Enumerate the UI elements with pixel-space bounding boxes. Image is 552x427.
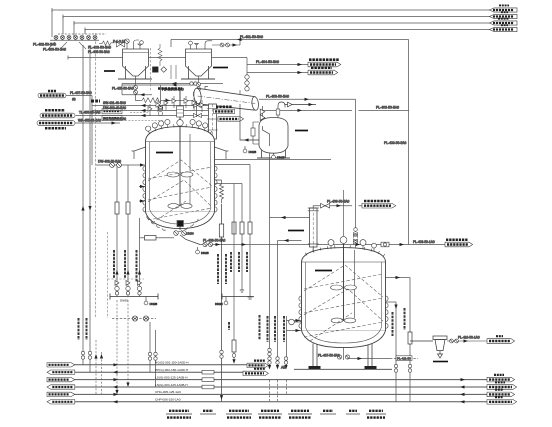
wire flex hose to tank V1 [99,40,125,46]
svg-text:PL-410-50-1A0: PL-410-50-1A0 [458,335,480,339]
wire dashed battery limit vertical [95,33,97,318]
reactor R2 jacket scallops left [299,296,302,328]
wire flex hose feed to condenser [140,98,193,103]
tank V3 level instrument [251,122,259,144]
reactor R2 left gauge [289,319,302,325]
flag pill to offgas tower (lower) [218,117,244,122]
inline rect on header drop [232,340,236,357]
reactor R2 vessel [302,248,386,348]
wire manifold drop 3 [73,23,75,37]
wire manifold drop 4 [84,30,86,35]
node flag top right 4 [490,25,518,31]
label DN50 at bottom valve [186,232,194,236]
wire to flag line B y72.5 [247,71,308,74]
node flag cooling supply WR [37,121,75,129]
svg-text:PL-407-50-5A0: PL-407-50-5A0 [70,91,92,95]
wire manifold header [50,39,99,41]
svg-text:PL-403-50-5A0: PL-403-50-5A0 [376,106,399,110]
jacket nozzle stubs R1 left [139,185,146,203]
ground text under R2 [281,365,286,369]
reactor R1 dome nozzles [148,124,212,134]
drop arrows into rows [220,365,288,400]
wire R1 branch y183.5 [215,183,243,185]
reactor R2 impellers [331,285,357,323]
heat exchanger E1 shell [193,88,259,111]
vertical labels R2 right columns [268,308,405,342]
wire manifold tails [48,42,86,49]
svg-text:PL-405-50-5A0: PL-405-50-5A0 [112,86,134,90]
wire condenser feed y217.5 [270,216,310,219]
node flag top right 2 [490,12,518,18]
wire drop x286 [286,316,288,395]
reactor R1 dip tube [189,134,191,207]
junction circles on drop lines [81,348,411,372]
valve pair after F1 [447,339,487,343]
wire scrubber riser right edge [408,40,410,245]
valve pair on SW at column [194,103,202,107]
label DW-402 on pump line [98,160,121,164]
discharge drain circle [196,247,209,255]
reactor R1 bottom valve square [177,221,183,231]
vertical labels mid columns [231,252,260,340]
reactor R1 bottom valve cluster [174,231,200,245]
flag pill A with title [308,60,341,67]
valve pair on DW2 at column [194,113,202,117]
wire condenser vent to offgas flag [313,204,362,208]
node flag row3 left [47,377,75,381]
rotameter FI-3 [248,222,252,234]
wire secondary overhead to riser x409 [263,109,409,112]
dashed utility risers to rows [117,300,128,392]
valve pair on recirc drop [158,105,162,116]
valve pair right of tank V2 [212,40,240,47]
dashed feed y120.5 [92,120,163,122]
label PL-407 bottom [318,353,340,357]
reactor R1 inner jacket wall [150,142,211,224]
wire R2 right jacket feed [386,276,411,402]
label PL-408 right [413,240,435,244]
row labels [155,361,189,402]
reactor R1 top instrument bubbles [146,119,208,131]
tank V3 vent candy cane [276,102,285,118]
svg-text:HP(G)-002-150-1A0D-H: HP(G)-002-150-1A0D-H [155,368,188,372]
svg-text:DN50: DN50 [186,232,194,236]
reactor R1 impellers [167,172,193,208]
label PL-401 on overhead line [237,35,263,41]
reactor R1 agitator shaft and motor [177,88,184,206]
wire utility row 3 [68,379,487,381]
svg-text:CHP-006-150-1A0: CHP-006-150-1A0 [155,398,181,402]
label PL-408 on discharge [203,239,226,243]
wire pump drop lines [150,322,156,387]
label PL-403-50-5A0 on E1 outlet [266,95,289,99]
wire DW pump line y165 [96,163,146,166]
wire R1 feed SW [92,101,209,107]
wire aux line y94.7 [122,84,152,97]
wire E1 outlet to R2 riser [259,98,356,232]
valve stack on R2 dome riser [354,228,358,250]
tank V1 top fittings [125,39,144,49]
equipment tag dash top left [104,70,115,72]
wire R1 feed DW2 [76,114,209,121]
reactor R2 dip tube [354,250,356,318]
wire left long vertical a [82,45,84,365]
condenser E2 column [308,208,319,256]
svg-text:PL-406-50-5A0: PL-406-50-5A0 [43,47,66,51]
strainer vertical on x221.5 [219,204,223,402]
reactor R2 bottom outlet [337,348,349,360]
legend item 6 [320,411,336,414]
node flag row5 left [47,392,75,396]
wire manifold drop 1 [51,10,53,37]
wire E1 left downcomer [196,101,198,117]
inline component on discharge near R2 [381,242,389,247]
reactor R1 bottom scallops [147,216,198,232]
svg-text:HG(G)-001-150-1A0D-H: HG(G)-001-150-1A0D-H [155,361,189,365]
wire R1 branch y164.5 [215,165,251,298]
node flag row6 right [487,397,517,404]
valve pair on discharge [203,242,213,246]
svg-text:PL-404-50-5A0: PL-404-50-5A0 [256,60,279,64]
vertical label left risers [79,318,87,340]
wire to flag line A y64.5 [247,60,308,66]
svg-text:PL-405-50-5A0: PL-405-50-5A0 [88,50,110,54]
utility header right under R1 [222,294,254,300]
wire R1 jacket out long line y159.5 [215,159,332,161]
reactor R1 level mark [156,152,173,154]
heat exchanger E1 nozzles [205,86,240,94]
rotameter FI-1 [232,184,236,364]
reactor R2 coil dashes [304,265,383,341]
instrument box on feed lines [102,109,122,121]
hopper tank V1 [118,49,152,79]
svg-text:PL-407-50-5A0: PL-407-50-5A0 [318,353,340,357]
flag box to scrubber (upper) [214,107,235,114]
wire utility row 2 [68,371,243,373]
ground symbol x242 [240,290,244,292]
svg-text:PL-403-50-5A0: PL-403-50-5A0 [88,45,111,49]
reactor R1 jacket scallops left [143,166,146,212]
vertical label right header [228,322,230,330]
svg-text:DN25: DN25 [150,302,158,306]
strainer on R1 bottom left line [140,236,175,240]
dashed boundary tanks [150,48,152,90]
wire left feed border vertical [91,96,93,166]
legend item 3 [226,411,252,418]
node flag cooling return TL [40,110,75,118]
arrows on dashed utility risers [115,383,129,395]
reactor R1 support lug left [132,147,146,159]
wire R1 right jacket spring [215,180,224,203]
svg-text:DN25: DN25 [215,302,223,306]
row inline spec rects [202,370,214,388]
reactor R1 jacket scallops right [215,166,218,212]
wire R1 recirc line y85 [122,83,195,104]
wire R2 right jacket return [386,302,398,402]
dashed risers above rows left [94,340,103,394]
svg-text:P-1-0.15: P-1-0.15 [113,40,125,44]
valve at V1 inlet [117,42,125,47]
node flag row3 right [487,375,515,382]
legend item 5 [288,411,312,418]
reactor R2 gauges [328,240,376,251]
valve on condenser vent [321,203,330,208]
tank V3 outlet left [240,104,259,142]
svg-text:(8): (8) [72,97,76,101]
svg-text:DW-402-50-5A0: DW-402-50-5A0 [98,160,121,164]
svg-text:PL-403-50-5A0: PL-403-50-5A0 [266,95,289,99]
tank V2 top fittings [189,41,213,49]
equipment tag dash V3 [295,130,308,132]
reactor R2 inner jacket wall [306,262,382,343]
rotameters on utility risers [115,202,130,214]
pumps on DW line [110,163,122,168]
flag pill B with title [308,68,338,75]
tank V2 bottom outlet valves [194,76,201,96]
ground line under R2 [294,368,392,370]
wire utility row 5 [68,393,487,395]
svg-text:PL-409-50-5A0: PL-409-50-5A0 [327,199,350,203]
svg-text:DN25: DN25 [249,150,257,154]
wire process line y57 [68,56,247,60]
arrows on left risers [81,206,91,211]
right header drain [215,297,228,307]
svg-text:PL-401-50-5A0: PL-401-50-5A0 [240,35,263,39]
wire top header line 3 [74,21,490,25]
reactor R2 legs [309,344,377,370]
wire WR line [75,119,120,125]
tank V1 bottom outlet valves [134,76,141,100]
header drain [144,297,157,307]
legend item 2 [200,411,216,414]
legend item 4 [258,411,282,418]
rotameter FI-2 [240,222,244,234]
label PL-409 on vent [327,199,350,203]
wire TL line [79,111,101,115]
svg-text:DW-403-40-5A0: DW-403-40-5A0 [103,106,126,110]
filter regulator F1 [410,336,447,358]
pump P1 between tanks [153,67,167,73]
equipment tag dash F1 [433,361,448,363]
receiver tank V3 [257,118,290,159]
node flag top right 3 [490,19,518,25]
node flag AWA top right 1 [490,5,518,12]
label PL-403-50-5A0 [88,45,111,49]
instrument stack x247 [245,58,249,92]
wire main overhead line to scrubber [171,40,409,48]
svg-text:DN25: DN25 [277,156,285,160]
vertical flex hose between tanks [158,44,162,66]
row arrows [113,363,465,403]
node flag row4 right [487,382,517,389]
reactor R1 vessel [146,127,215,229]
reactor R1 coil dashes [148,160,212,223]
node flag to vulcanize 2 [243,369,268,376]
svg-text:SW-401-40-5A0: SW-401-40-5A0 [103,101,126,105]
node flag row6 left [47,400,75,404]
svg-text:PL-402-50-5A0: PL-402-50-5A0 [33,42,56,46]
equipment tag dash E2 [288,230,304,232]
stand lines under flex [171,65,176,79]
node flag discharge to scrubber [445,240,473,247]
scrubber column T1 [207,104,218,139]
rotameter on x410 [408,332,412,344]
svg-text:DN25: DN25 [201,251,209,255]
wire E1 drain long drop [263,106,270,402]
drain valve small left [243,146,256,154]
label under transfer line [158,87,182,90]
equipment tag dash V2 [213,67,228,69]
reactor R1 support lug right [215,147,229,159]
valve pair on E1 drain [260,109,269,121]
wire R1 discharge line y244.5 [200,243,445,246]
node flag NG [487,336,515,343]
jacket nozzle stubs R2 left [287,319,302,332]
valve manifold group V-101..V-107 [54,35,97,40]
svg-text:PL-408-50-1A0: PL-408-50-1A0 [413,240,435,244]
reactor R1 dashed instrument line [130,112,148,114]
hopper tank V2 [181,49,215,79]
vertical labels R1 bottom left columns [114,250,137,282]
reactor R1 top valve cluster [148,96,204,116]
svg-text:PL-403-50-5A0: PL-403-50-5A0 [384,141,407,145]
svg-text:LN(G)-004-125-1A0B-H: LN(G)-004-125-1A0B-H [155,383,188,387]
svg-text:AB: AB [281,365,286,369]
svg-text:PL-408-50-5A0: PL-408-50-5A0 [203,239,226,243]
label PL-402-50-5A0 [33,42,56,46]
node flag N2 supply [38,91,66,98]
reactor R2 level mark [315,270,332,272]
legend item 1 [166,411,192,418]
wire top header line 4 [85,28,490,32]
label on riser x409 [384,141,407,145]
svg-text:CHG-005-125-1A0: CHG-005-125-1A0 [155,390,181,394]
utility riser valve cluster [115,281,142,295]
wire utility row 6 [68,401,487,403]
utility header under R1 [110,294,158,303]
svg-text:PL-411-50: PL-411-50 [397,356,411,360]
wire condenser feed y240.5 [278,239,302,402]
flag pill offgas tower [362,201,396,208]
reactor R2 agitator [340,190,347,321]
wire top header line 1 [52,8,490,12]
node flag row4 left [47,385,75,389]
wire left long vertical b [89,45,91,372]
wire utility row 4 [68,386,487,388]
tank V3 inlet line w valve [285,102,316,107]
wire N2 line [66,91,92,101]
reactor R2 dome nozzles [305,245,384,256]
tank V3 drain [272,153,285,159]
wire utility row 1 [68,364,247,366]
wire manifold dashed line [58,33,106,35]
label PL-403-50-5A0 right [376,106,399,110]
node flag row1 left [47,363,75,367]
wire manifold drop 2 [62,17,64,35]
wire transfer line y83.5 [122,82,223,85]
label PL-405 under tank V1 [112,86,134,90]
pump pair bottom [112,316,156,321]
node flag row2 left [47,370,75,374]
dashed sub-boundary bottom left [108,232,145,318]
wire R1 feed DW1 [92,106,209,112]
node flag to vulcanize 1 [247,361,268,368]
wire utility risers to R1 jacket [115,165,141,297]
wire R2 discharge to right [348,357,419,360]
label box on R2 discharge [396,356,412,361]
svg-text:DN80: DN80 [120,299,128,303]
label PL-406-50-5A0 [43,47,66,51]
wire top header line 2 [63,15,490,19]
label PL-405-50-5A0 third [88,50,110,54]
svg-text:LS(G)-003-125-1A0B-H: LS(G)-003-125-1A0B-H [155,375,188,379]
vertical labels R1 right [218,254,226,284]
reactor R2 jacket scallops right [386,296,389,328]
legend item 7 [346,411,360,414]
ground symbol x250 [248,297,253,299]
label PL-410 to NG [458,335,480,339]
node flag row5 right [487,390,515,397]
legend item 8 [366,411,386,418]
label pipe rack text [91,100,100,103]
